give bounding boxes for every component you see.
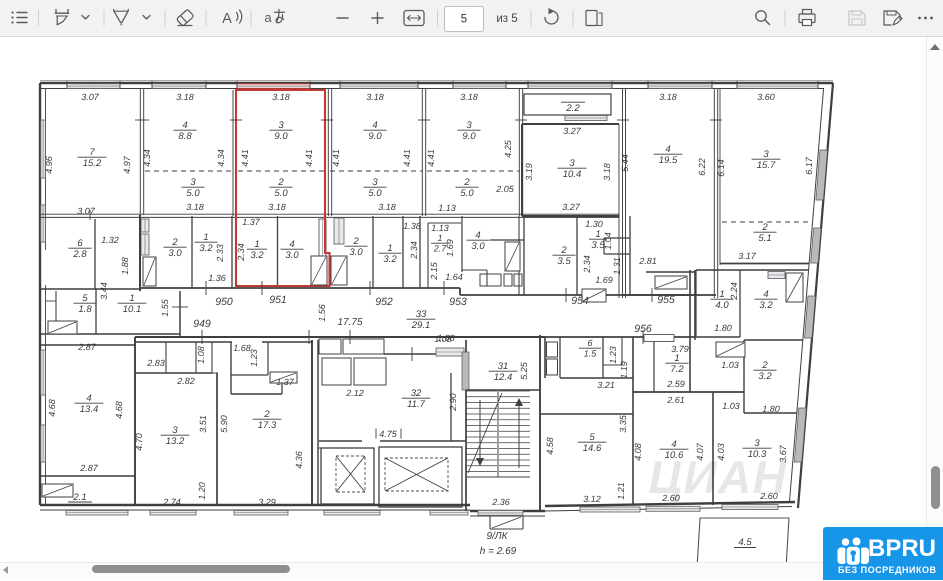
svg-text:5.0: 5.0 [368, 188, 382, 199]
svg-text:1: 1 [387, 243, 392, 254]
svg-text:3: 3 [754, 438, 760, 449]
svg-text:2.83: 2.83 [146, 358, 165, 368]
svg-text:1.32: 1.32 [101, 235, 119, 245]
svg-text:3.2: 3.2 [199, 243, 213, 254]
svg-text:5.90: 5.90 [219, 415, 229, 433]
svg-text:2.2: 2.2 [565, 103, 580, 114]
svg-text:955: 955 [657, 294, 675, 306]
svg-text:h = 2.69: h = 2.69 [480, 546, 517, 557]
svg-text:13.4: 13.4 [80, 404, 99, 415]
svg-text:1.80: 1.80 [762, 404, 780, 414]
svg-text:7.2: 7.2 [670, 364, 684, 375]
svg-text:5.0: 5.0 [274, 188, 288, 199]
svg-text:951: 951 [269, 294, 287, 306]
svg-text:3.51: 3.51 [198, 415, 208, 433]
svg-text:2.1: 2.1 [72, 492, 86, 503]
svg-text:952: 952 [375, 296, 393, 308]
svg-text:17.75: 17.75 [337, 317, 362, 328]
svg-text:2: 2 [761, 222, 768, 233]
svg-text:1.31: 1.31 [612, 257, 622, 275]
svg-text:2.59: 2.59 [666, 379, 685, 389]
svg-text:4: 4 [182, 120, 187, 131]
svg-text:2.87: 2.87 [79, 463, 99, 473]
svg-text:2.81: 2.81 [638, 256, 657, 266]
svg-text:10.1: 10.1 [123, 304, 142, 315]
svg-text:1.64: 1.64 [445, 272, 463, 282]
svg-text:33: 33 [416, 309, 427, 320]
svg-text:17.3: 17.3 [258, 420, 277, 431]
svg-text:2.05: 2.05 [495, 184, 515, 194]
svg-text:9.0: 9.0 [462, 131, 476, 142]
svg-text:1: 1 [719, 289, 724, 300]
svg-text:2.12: 2.12 [345, 388, 364, 398]
svg-text:12.4: 12.4 [494, 372, 513, 383]
svg-text:2.90: 2.90 [448, 393, 458, 412]
svg-text:4.25: 4.25 [503, 139, 513, 158]
svg-text:1.37: 1.37 [276, 377, 295, 387]
svg-text:4.41: 4.41 [402, 149, 412, 167]
svg-text:6.22: 6.22 [697, 158, 707, 176]
svg-text:32: 32 [411, 388, 422, 399]
svg-text:4.68: 4.68 [47, 399, 57, 417]
svg-text:3: 3 [569, 158, 575, 169]
svg-text:2: 2 [263, 409, 270, 420]
svg-text:3: 3 [763, 149, 769, 160]
svg-text:1.69: 1.69 [445, 239, 455, 257]
svg-text:14.6: 14.6 [583, 443, 602, 454]
svg-text:3.2: 3.2 [759, 300, 773, 311]
svg-text:ЦИАН: ЦИАН [648, 451, 787, 503]
svg-text:1: 1 [595, 229, 600, 240]
svg-text:4.96: 4.96 [44, 156, 54, 174]
svg-text:1.8: 1.8 [78, 304, 92, 315]
svg-text:1: 1 [437, 233, 442, 243]
svg-text:1.20: 1.20 [197, 482, 207, 500]
svg-text:5.1: 5.1 [758, 233, 771, 244]
svg-text:2.8: 2.8 [72, 249, 87, 260]
svg-text:7: 7 [89, 147, 95, 158]
svg-text:2.61: 2.61 [666, 395, 685, 405]
svg-text:1.03: 1.03 [721, 360, 739, 370]
svg-text:8.8: 8.8 [178, 131, 192, 142]
svg-text:1.56: 1.56 [317, 304, 327, 322]
svg-text:3.12: 3.12 [583, 494, 601, 504]
svg-text:10.4: 10.4 [563, 169, 582, 180]
svg-text:3.29: 3.29 [258, 497, 276, 507]
svg-text:1.19: 1.19 [619, 361, 629, 379]
svg-text:1.08: 1.08 [196, 346, 206, 364]
svg-text:1: 1 [129, 293, 134, 304]
svg-text:4: 4 [372, 120, 377, 131]
svg-text:1.04: 1.04 [603, 232, 613, 250]
svg-text:3.18: 3.18 [186, 202, 204, 212]
svg-text:3: 3 [466, 120, 472, 131]
svg-text:3.27: 3.27 [562, 202, 581, 212]
svg-text:3.0: 3.0 [349, 247, 363, 258]
svg-text:1.13: 1.13 [438, 203, 456, 213]
svg-text:4.41: 4.41 [331, 149, 341, 167]
svg-text:949: 949 [193, 318, 211, 330]
svg-text:3.2: 3.2 [383, 254, 397, 265]
svg-text:1: 1 [254, 239, 259, 250]
svg-text:6.17: 6.17 [804, 156, 814, 175]
svg-text:4.36: 4.36 [294, 451, 304, 469]
svg-text:3.60: 3.60 [757, 92, 775, 102]
svg-text:5: 5 [461, 14, 467, 26]
svg-text:15.2: 15.2 [83, 158, 102, 169]
svg-text:11.7: 11.7 [407, 399, 426, 410]
svg-text:2.15: 2.15 [429, 261, 439, 281]
svg-text:4: 4 [665, 144, 670, 155]
svg-text:3.18: 3.18 [366, 92, 384, 102]
svg-text:3.18: 3.18 [176, 92, 194, 102]
svg-text:4.34: 4.34 [142, 149, 152, 167]
svg-text:A: A [222, 11, 232, 27]
svg-text:954: 954 [571, 295, 589, 307]
svg-text:3: 3 [190, 177, 196, 188]
svg-text:3.27: 3.27 [563, 126, 582, 136]
svg-text:3.19: 3.19 [524, 163, 534, 181]
svg-text:3: 3 [372, 177, 378, 188]
svg-text:3.0: 3.0 [168, 248, 182, 259]
svg-text:5.0: 5.0 [460, 188, 474, 199]
svg-text:1.80: 1.80 [714, 323, 732, 333]
svg-text:4: 4 [671, 439, 676, 450]
svg-text:3.18: 3.18 [602, 163, 612, 181]
svg-text:1.88: 1.88 [120, 257, 130, 275]
svg-text:2: 2 [560, 245, 567, 256]
svg-text:9.0: 9.0 [368, 131, 382, 142]
svg-text:1.5: 1.5 [584, 349, 598, 359]
svg-text:1.36: 1.36 [208, 273, 226, 283]
svg-text:2.34: 2.34 [582, 255, 592, 274]
svg-text:из 5: из 5 [496, 13, 517, 25]
svg-text:3.18: 3.18 [268, 202, 286, 212]
svg-text:950: 950 [215, 296, 233, 308]
svg-text:1.38: 1.38 [403, 221, 421, 231]
svg-text:953: 953 [449, 296, 467, 308]
svg-text:9/ЛК: 9/ЛК [486, 531, 508, 542]
svg-text:3.44: 3.44 [99, 282, 109, 300]
svg-text:1.03: 1.03 [722, 401, 740, 411]
svg-text:1: 1 [203, 232, 208, 243]
svg-text:3: 3 [278, 120, 284, 131]
svg-text:5.44: 5.44 [620, 154, 630, 172]
svg-text:4.68: 4.68 [114, 401, 124, 419]
svg-text:9.0: 9.0 [274, 131, 288, 142]
svg-text:4: 4 [763, 289, 768, 300]
svg-text:1.23: 1.23 [608, 346, 618, 364]
svg-text:3.18: 3.18 [272, 92, 290, 102]
svg-text:2.34: 2.34 [236, 243, 246, 262]
svg-text:3.18: 3.18 [378, 202, 396, 212]
svg-text:4.41: 4.41 [426, 149, 436, 167]
svg-text:4.41: 4.41 [240, 149, 250, 167]
svg-text:1.21: 1.21 [616, 482, 626, 500]
svg-text:6: 6 [587, 338, 592, 348]
svg-text:13.2: 13.2 [166, 436, 185, 447]
svg-text:15.7: 15.7 [757, 160, 776, 171]
svg-text:5.0: 5.0 [186, 188, 200, 199]
svg-text:3.0: 3.0 [471, 241, 485, 252]
svg-text:4: 4 [289, 239, 294, 250]
svg-text:3.21: 3.21 [597, 380, 615, 390]
svg-text:4.97: 4.97 [122, 155, 132, 174]
svg-text:5: 5 [82, 293, 88, 304]
svg-text:1.37: 1.37 [242, 217, 261, 227]
svg-text:2: 2 [463, 177, 470, 188]
svg-text:4.58: 4.58 [545, 437, 555, 455]
svg-text:1.13: 1.13 [431, 223, 449, 233]
svg-text:2.34: 2.34 [409, 241, 419, 260]
svg-text:4: 4 [86, 393, 91, 404]
svg-text:4.0: 4.0 [715, 300, 729, 311]
svg-text:2: 2 [171, 237, 178, 248]
svg-text:3.07: 3.07 [81, 92, 100, 102]
svg-text:2.24: 2.24 [729, 282, 739, 301]
svg-text:6.14: 6.14 [716, 159, 726, 177]
svg-text:4.41: 4.41 [304, 149, 314, 167]
svg-text:2.36: 2.36 [491, 497, 510, 507]
svg-text:2: 2 [277, 177, 284, 188]
svg-text:2: 2 [352, 236, 359, 247]
svg-text:2.33: 2.33 [215, 244, 225, 263]
svg-text:3.5: 3.5 [557, 256, 571, 267]
svg-text:4.34: 4.34 [216, 149, 226, 167]
svg-text:29.1: 29.1 [411, 320, 431, 331]
svg-text:3.18: 3.18 [460, 92, 478, 102]
svg-text:2.87: 2.87 [77, 342, 97, 352]
svg-text:4.70: 4.70 [134, 433, 144, 451]
svg-text:3.0: 3.0 [285, 250, 299, 261]
svg-text:1: 1 [674, 353, 679, 364]
svg-text:3: 3 [172, 425, 178, 436]
svg-text:3.2: 3.2 [250, 250, 264, 261]
svg-text:6: 6 [77, 238, 83, 249]
svg-text:a: a [264, 10, 272, 25]
svg-text:5.25: 5.25 [519, 361, 529, 380]
svg-text:2.82: 2.82 [176, 376, 195, 386]
svg-text:4.5: 4.5 [738, 537, 752, 548]
svg-text:1.30: 1.30 [585, 219, 603, 229]
svg-text:2.74: 2.74 [162, 497, 181, 507]
svg-text:3.35: 3.35 [618, 414, 628, 433]
svg-text:3.17: 3.17 [738, 251, 757, 261]
svg-text:1.23: 1.23 [249, 349, 259, 367]
svg-text:3.18: 3.18 [659, 92, 677, 102]
svg-text:1.08: 1.08 [434, 334, 452, 344]
svg-text:2: 2 [761, 360, 768, 371]
svg-text:31: 31 [498, 361, 509, 372]
svg-text:19.5: 19.5 [659, 155, 678, 166]
svg-text:4: 4 [475, 230, 480, 241]
svg-text:4.75: 4.75 [379, 429, 398, 439]
svg-text:4.08: 4.08 [633, 443, 643, 461]
svg-text:1.55: 1.55 [160, 298, 170, 317]
svg-text:1.69: 1.69 [595, 275, 613, 285]
svg-text:3.07: 3.07 [77, 206, 96, 216]
svg-text:3.2: 3.2 [758, 371, 772, 382]
svg-text:5: 5 [589, 432, 595, 443]
